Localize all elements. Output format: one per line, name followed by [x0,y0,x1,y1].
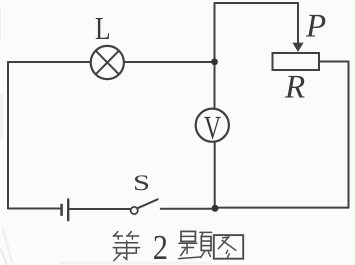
caption char 2 [154,236,166,259]
node A (junction dot) [211,58,218,65]
scan artifacts (faint) [0,8,210,265]
wire right vertical [348,62,350,208]
battery [62,199,69,220]
wire bottom right [215,207,349,209]
wire node A to voltmeter [214,62,216,109]
wire switch to node B [161,208,215,210]
caption char 题 [179,231,212,258]
voltmeter V [196,109,229,142]
node B (junction dot) [212,205,219,212]
switch S [131,199,158,214]
label R [285,76,305,98]
lamp L [91,46,124,79]
wire lamp to node A [124,61,214,63]
wire battery to switch [70,208,131,210]
wire node A up [214,3,216,62]
wire slider arrow stem [297,3,299,44]
label S [135,175,148,190]
wire voltmeter to node B [214,142,216,208]
label L [96,18,109,39]
wire left vertical [7,62,9,209]
wire rheostat to right [319,61,349,63]
rheostat R [273,53,320,70]
wire top horizontal [215,2,299,4]
wire bottom left [8,208,60,210]
caption char 图 [214,235,243,259]
caption char 第 [113,232,139,261]
label P [306,15,326,37]
caption: 第 2 题图 (drawn strokes) [113,231,243,260]
slider arrow P (arrowhead) [292,43,303,52]
wire top left to lamp [8,61,91,63]
